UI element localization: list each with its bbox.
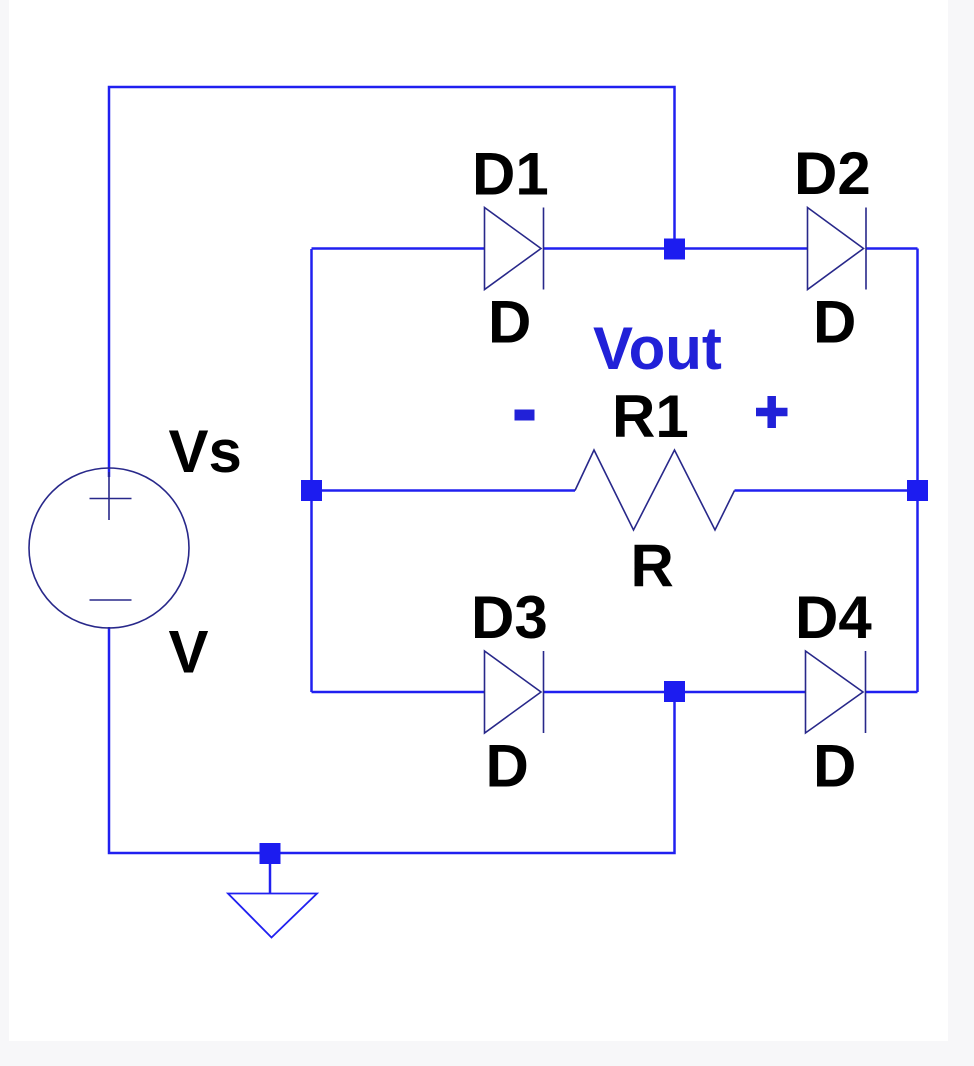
wire bridge left vertical bbox=[310, 249, 313, 692]
node junction right middle bbox=[907, 480, 928, 501]
wire D1 cathode to junction bbox=[544, 247, 675, 250]
svg-text:D4: D4 bbox=[795, 584, 872, 651]
wire middle row left: junction to resistor bbox=[312, 489, 576, 492]
svg-text:Vs: Vs bbox=[169, 418, 242, 485]
voltage source V circle bbox=[29, 468, 189, 628]
svg-text:D: D bbox=[486, 733, 529, 800]
node junction D3-D4 bottom bbox=[664, 681, 685, 702]
svg-text:R: R bbox=[631, 533, 674, 600]
svg-text:D2: D2 bbox=[794, 140, 871, 207]
wire ground stub bbox=[269, 864, 272, 893]
ground bbox=[228, 894, 317, 938]
resistor R1 bbox=[575, 450, 735, 530]
wire middle row right: resistor to junction bbox=[735, 489, 918, 492]
label plus polarity bbox=[756, 396, 788, 428]
svg-text:D1: D1 bbox=[472, 141, 549, 208]
wire D1 row left bbox=[312, 247, 485, 250]
wire D3 row left bbox=[312, 691, 485, 694]
wire D4 cathode to right corner bbox=[866, 691, 918, 694]
svg-text:D: D bbox=[813, 289, 856, 356]
wire D3 cathode to junction bbox=[544, 691, 675, 694]
svg-text:D: D bbox=[813, 733, 856, 800]
svg-text:V: V bbox=[169, 619, 209, 686]
node junction D1-D2 top bbox=[664, 239, 685, 260]
svg-text:D: D bbox=[488, 289, 531, 356]
voltage source minus sign bbox=[90, 599, 132, 601]
voltage source plus sign bbox=[90, 472, 132, 520]
wire junction to D4 anode bbox=[675, 691, 806, 694]
diode D3 bbox=[485, 651, 544, 733]
wire bottom loop: source bottom to D3/D4 junction bbox=[109, 627, 675, 853]
diode D2 bbox=[808, 208, 867, 290]
svg-text:D3: D3 bbox=[471, 584, 548, 651]
node junction ground bbox=[260, 843, 281, 864]
wire top loop: source top to D1/D2 junction bbox=[109, 87, 675, 477]
node junction left middle bbox=[301, 480, 322, 501]
label minus polarity bbox=[515, 410, 535, 421]
wire D2 cathode to right corner bbox=[866, 247, 918, 250]
wire right vertical bbox=[916, 249, 919, 693]
svg-text:Vout: Vout bbox=[593, 315, 722, 382]
diode D1 bbox=[485, 208, 544, 290]
diode D4 bbox=[806, 651, 866, 733]
wire junction to D2 anode bbox=[675, 247, 808, 250]
svg-text:R1: R1 bbox=[612, 383, 689, 450]
